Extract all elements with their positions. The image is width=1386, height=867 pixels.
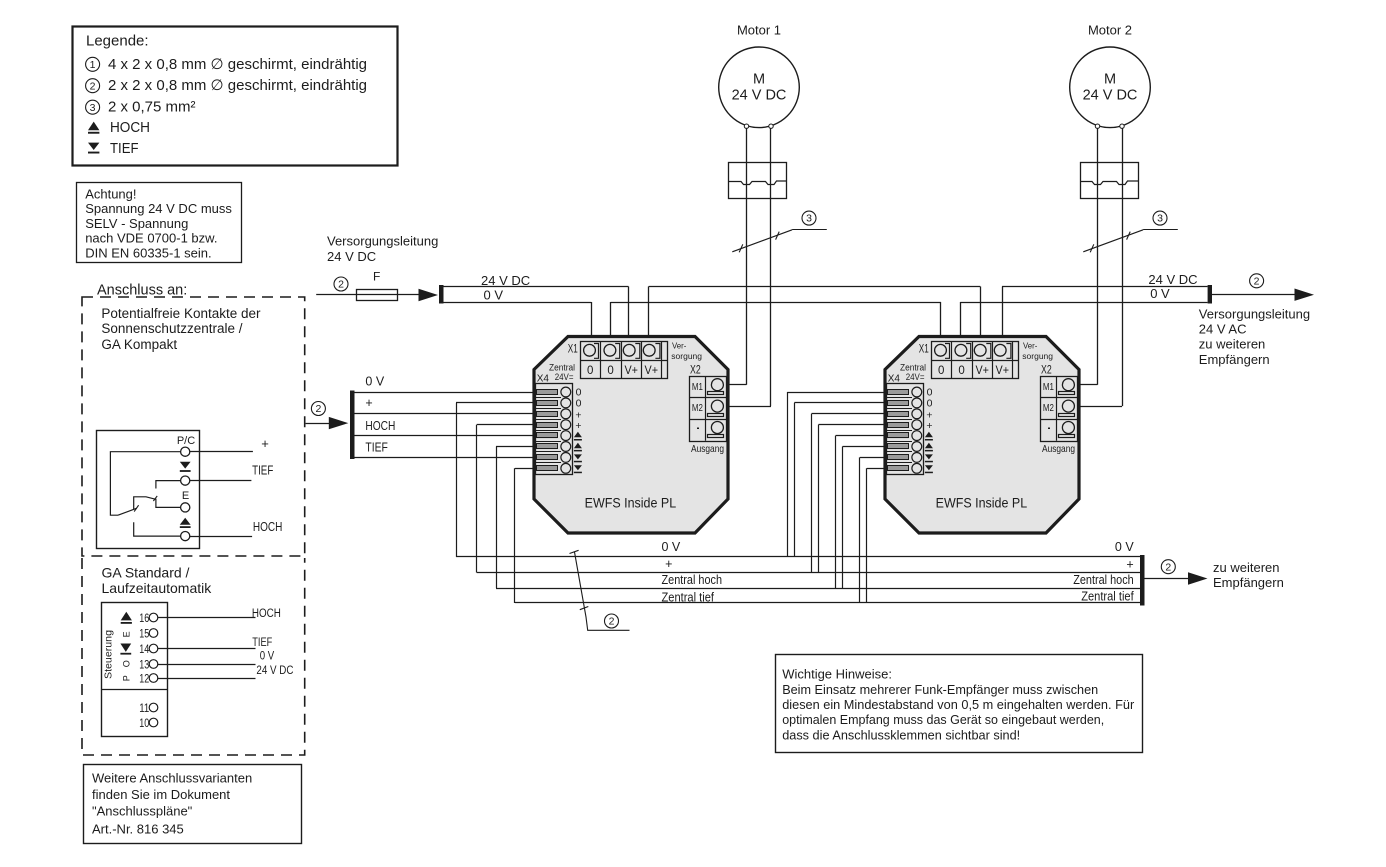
svg-text:+: +: [261, 436, 269, 451]
svg-text:finden Sie im Dokument: finden Sie im Dokument: [92, 787, 230, 802]
svg-text:SELV - Spannung: SELV - Spannung: [85, 216, 188, 231]
svg-text:GA Kompakt: GA Kompakt: [101, 337, 177, 352]
svg-text:Ausgang: Ausgang: [1042, 443, 1075, 455]
svg-text:2 x 2 x 0,8 mm ∅ geschirmt, ei: 2 x 2 x 0,8 mm ∅ geschirmt, eindrähtig: [108, 77, 367, 94]
svg-text:HOCH: HOCH: [365, 419, 395, 433]
svg-text:24 V DC: 24 V DC: [1148, 272, 1197, 287]
svg-text:12: 12: [139, 673, 149, 685]
svg-text:Wichtige Hinweise:: Wichtige Hinweise:: [782, 667, 892, 682]
svg-text:0: 0: [938, 365, 944, 377]
svg-text:0 V: 0 V: [662, 540, 681, 554]
svg-text:X1: X1: [919, 344, 929, 356]
svg-text:2: 2: [315, 403, 321, 415]
svg-text:diesen ein Mindestabstand von: diesen ein Mindestabstand von 0,5 m eing…: [782, 697, 1135, 712]
svg-text:Beim Einsatz mehrerer Funk-Emp: Beim Einsatz mehrerer Funk-Empfänger mus…: [782, 682, 1098, 697]
svg-text:X1: X1: [568, 344, 578, 356]
svg-text:Versorgungsleitung: Versorgungsleitung: [1199, 306, 1310, 321]
svg-text:+: +: [365, 396, 372, 410]
svg-text:TIEF: TIEF: [365, 441, 388, 455]
svg-text:2: 2: [90, 80, 96, 92]
svg-text:M: M: [753, 72, 765, 88]
svg-text:2: 2: [1254, 275, 1260, 287]
svg-text:Art.-Nr. 816 345: Art.-Nr. 816 345: [92, 821, 184, 836]
svg-text:TIEF: TIEF: [252, 463, 273, 478]
svg-text:0: 0: [587, 365, 593, 377]
svg-text:Empfängern: Empfängern: [1213, 575, 1284, 590]
svg-text:GA Standard /: GA Standard /: [102, 565, 190, 581]
svg-text:EWFS Inside PL: EWFS Inside PL: [585, 496, 677, 511]
svg-text:0: 0: [576, 397, 582, 409]
svg-text:"Anschlusspläne": "Anschlusspläne": [92, 804, 193, 819]
svg-text:V+: V+: [645, 365, 659, 377]
svg-text:V+: V+: [996, 365, 1010, 377]
svg-text:HOCH: HOCH: [253, 519, 283, 534]
svg-text:0 V: 0 V: [365, 374, 384, 388]
svg-text:M1: M1: [1043, 381, 1054, 393]
svg-text:2: 2: [1165, 561, 1171, 573]
svg-text:dass die Anschlussklemmen sich: dass die Anschlussklemmen sichtbar sind!: [782, 727, 1020, 742]
svg-text:0: 0: [958, 365, 964, 377]
svg-text:X2: X2: [1041, 364, 1052, 376]
svg-text:E: E: [121, 631, 131, 637]
svg-text:0 V: 0 V: [1150, 286, 1170, 301]
svg-text:Motor 2: Motor 2: [1088, 23, 1132, 38]
svg-text:P: P: [121, 675, 131, 681]
svg-text:M2: M2: [1043, 402, 1054, 414]
svg-text:X2: X2: [690, 364, 701, 376]
svg-text:+: +: [575, 420, 581, 432]
svg-text:2: 2: [338, 279, 344, 291]
svg-text:Ver-: Ver-: [1023, 341, 1037, 351]
svg-text:nach VDE 0700-1 bzw.: nach VDE 0700-1 bzw.: [85, 231, 217, 246]
svg-text:Zentral hoch: Zentral hoch: [1073, 573, 1134, 587]
svg-text:DIN EN 60335-1 sein.: DIN EN 60335-1 sein.: [85, 245, 211, 260]
svg-text:M1: M1: [692, 381, 703, 393]
svg-text:15: 15: [139, 628, 149, 640]
svg-text:0 V: 0 V: [260, 651, 275, 663]
svg-text:3: 3: [1157, 213, 1163, 225]
svg-text:Laufzeitautomatik: Laufzeitautomatik: [102, 580, 213, 596]
svg-text:24 V DC: 24 V DC: [732, 87, 787, 103]
svg-text:+: +: [1126, 558, 1133, 572]
svg-text:24 V AC: 24 V AC: [1199, 322, 1247, 337]
svg-text:HOCH: HOCH: [252, 608, 281, 620]
svg-text:M2: M2: [692, 402, 703, 414]
svg-text:24V=: 24V=: [555, 372, 574, 382]
svg-text:+: +: [665, 557, 672, 571]
svg-text:TIEF: TIEF: [110, 140, 139, 157]
svg-text:0 V: 0 V: [484, 287, 504, 302]
svg-text:V+: V+: [624, 365, 638, 377]
svg-text:16: 16: [139, 613, 149, 625]
svg-text:HOCH: HOCH: [110, 119, 150, 136]
svg-text:M: M: [1104, 72, 1116, 88]
svg-text:11: 11: [139, 703, 149, 715]
svg-text:Versorgungsleitung: Versorgungsleitung: [327, 234, 438, 249]
svg-text:Achtung!: Achtung!: [85, 187, 136, 202]
svg-text:2 x 0,75 mm²: 2 x 0,75 mm²: [108, 99, 196, 116]
svg-text:10: 10: [139, 718, 149, 730]
svg-text:Steuerung: Steuerung: [104, 630, 115, 679]
svg-text:2: 2: [609, 616, 615, 628]
svg-text:Zentral tief: Zentral tief: [1081, 590, 1134, 604]
svg-text:24 V DC: 24 V DC: [481, 273, 530, 288]
svg-text:E: E: [182, 490, 189, 502]
svg-text:V+: V+: [975, 365, 989, 377]
svg-text:4 x 2 x 0,8 mm ∅ geschirmt, ei: 4 x 2 x 0,8 mm ∅ geschirmt, eindrähtig: [108, 56, 367, 73]
svg-text:Motor 1: Motor 1: [737, 23, 781, 38]
svg-text:Anschluss an:: Anschluss an:: [97, 283, 187, 299]
svg-text:Ver-: Ver-: [672, 341, 686, 351]
svg-text:0 V: 0 V: [1115, 540, 1134, 554]
svg-text:24V=: 24V=: [906, 372, 925, 382]
svg-text:Legende:: Legende:: [86, 33, 149, 50]
svg-text:optimalen Empfang muss das Ger: optimalen Empfang muss das Gerät so eing…: [782, 712, 1104, 727]
svg-text:1: 1: [90, 59, 96, 71]
svg-text:EWFS Inside PL: EWFS Inside PL: [936, 496, 1028, 511]
svg-text:13: 13: [139, 659, 149, 671]
svg-text:sorgung: sorgung: [671, 351, 702, 361]
svg-text:0: 0: [607, 365, 613, 377]
svg-text:24 V DC: 24 V DC: [256, 665, 293, 677]
svg-text:0: 0: [927, 397, 933, 409]
svg-text:O: O: [122, 660, 132, 667]
svg-text:F: F: [373, 270, 380, 284]
svg-text:14: 14: [139, 644, 149, 656]
svg-text:TIEF: TIEF: [252, 637, 272, 649]
svg-text:Weitere Anschlussvarianten: Weitere Anschlussvarianten: [92, 771, 252, 786]
svg-text:P/C: P/C: [177, 435, 195, 447]
svg-text:Potentialfreie Kontakte der: Potentialfreie Kontakte der: [101, 306, 261, 321]
svg-text:3: 3: [90, 102, 96, 114]
svg-text:zu weiteren: zu weiteren: [1213, 560, 1279, 575]
svg-text:zu weiteren: zu weiteren: [1199, 337, 1265, 352]
svg-text:24 V DC: 24 V DC: [1083, 87, 1138, 103]
svg-text:3: 3: [806, 213, 812, 225]
svg-text:Zentral tief: Zentral tief: [662, 590, 715, 604]
svg-text:Empfängern: Empfängern: [1199, 352, 1270, 367]
svg-text:Ausgang: Ausgang: [691, 443, 724, 455]
svg-text:+: +: [926, 420, 932, 432]
svg-text:sorgung: sorgung: [1022, 351, 1053, 361]
svg-text:Zentral hoch: Zentral hoch: [662, 573, 723, 587]
svg-text:24 V DC: 24 V DC: [327, 249, 376, 264]
svg-text:Spannung 24 V DC muss: Spannung 24 V DC muss: [85, 201, 232, 216]
svg-text:Sonnenschutzzentrale /: Sonnenschutzzentrale /: [101, 321, 242, 336]
